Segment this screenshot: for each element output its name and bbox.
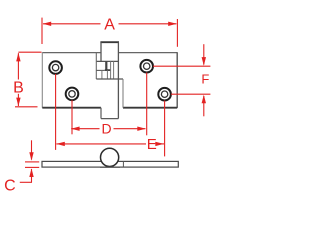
dimension E arrow left	[56, 142, 65, 146]
side view leaf bar	[42, 161, 178, 167]
dimension E arrow right	[155, 142, 164, 146]
dimension C extension ticks	[25, 162, 39, 168]
dimension D line	[71, 128, 145, 130]
dimension F hole centre line top	[153, 65, 210, 67]
dimension A arrow right	[168, 22, 177, 26]
side view leaf bar bottom edge over barrel	[100, 166, 120, 168]
dimension A extension line left	[41, 18, 43, 44]
dimension D arrow right	[137, 127, 146, 131]
hinge plate right edge	[176, 52, 178, 108]
dimension A line	[43, 23, 176, 25]
dimension B arrow up	[16, 53, 20, 62]
knuckle small box verticals	[102, 61, 114, 79]
dimension E line	[56, 143, 164, 145]
svg-text:C: C	[4, 178, 16, 195]
dimension B extension line top	[18, 51, 41, 53]
mounting hole bottom-right	[158, 88, 171, 101]
dimension C top arrow	[29, 140, 33, 161]
knuckle pin thick vertical	[105, 61, 107, 70]
knuckle lower horizontal	[96, 78, 123, 80]
dimension F hole centre line bottom	[171, 93, 211, 95]
svg-text:E: E	[147, 136, 157, 153]
dimension C bottom arrow	[29, 168, 33, 182]
dimension A extension line right	[176, 19, 178, 47]
knuckle tab top (above plate)	[96, 42, 119, 61]
knuckle tab bottom (below plate)	[101, 108, 118, 119]
dimension E extension line left	[55, 74, 57, 150]
mounting hole bottom-left	[66, 88, 79, 101]
svg-text:F: F	[201, 71, 209, 86]
dimension E extension line right	[164, 101, 166, 157]
dimension F bottom arrow	[202, 95, 206, 117]
dimension C leader	[20, 181, 32, 183]
hinge plate bottom edge	[42, 107, 177, 109]
knuckle long right edge	[117, 42, 119, 118]
dimension D arrow left	[71, 127, 80, 131]
dimension D extension line right	[146, 73, 148, 136]
knuckle clearance slot vertical	[122, 79, 124, 108]
side view leaf joint tick	[122, 161, 124, 167]
knuckle mid horizontal	[96, 69, 105, 71]
dimension B arrow down	[16, 98, 20, 107]
svg-text:A: A	[104, 16, 115, 33]
dimension A arrow left	[43, 22, 52, 26]
dimension D extension line left	[71, 100, 73, 134]
dimension B extension line bottom	[15, 106, 38, 108]
hinge plate left edge	[41, 52, 43, 107]
dimension F top arrow	[202, 44, 206, 65]
mounting hole top-left	[49, 61, 62, 74]
knuckle slot left vertical	[95, 53, 97, 79]
dimension B line	[17, 53, 19, 106]
mounting hole top-right	[140, 60, 153, 73]
side view knuckle barrel circle	[101, 148, 119, 166]
svg-text:B: B	[13, 80, 24, 97]
hinge plate top edge (top view)	[42, 52, 177, 54]
svg-text:D: D	[102, 121, 112, 137]
